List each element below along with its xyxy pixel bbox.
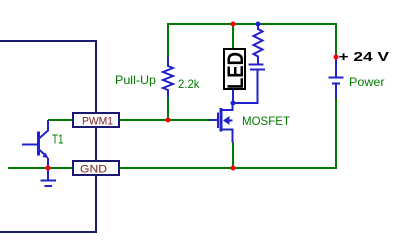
net label box GND xyxy=(73,161,119,175)
wire MOSFET source to GND rail xyxy=(232,142,234,168)
svg-text:GND: GND xyxy=(80,164,107,176)
resistor R2 snubber xyxy=(254,24,263,64)
capacitor C1 xyxy=(233,65,265,104)
junction dot GND / MOSFET source xyxy=(231,166,236,171)
wire pull-up bottom lead to PWM net xyxy=(167,97,169,120)
junction dot +24V node xyxy=(334,55,339,60)
net label box PWM1 xyxy=(73,113,119,127)
junction dot GND / emitter xyxy=(46,166,51,171)
junction dot top rail / snubber xyxy=(256,22,261,27)
junction dot top rail / LED xyxy=(231,22,236,27)
wire +24V top rail xyxy=(168,24,336,57)
svg-text:PWM1: PWM1 xyxy=(82,116,113,128)
wire LED anode drop xyxy=(232,24,234,48)
ground symbol xyxy=(41,168,57,186)
transistor T1 xyxy=(22,120,49,168)
svg-text:T1: T1 xyxy=(52,132,64,147)
battery B1 24V Power xyxy=(329,58,344,98)
wire PWM net: PWM1 box to MOSFET gate xyxy=(120,119,209,121)
MOSFET Q1 xyxy=(209,104,233,143)
svg-text:Power: Power xyxy=(349,75,385,89)
wire PWM net: collector to PWM1 box xyxy=(48,119,72,121)
resistor R1 pull-up 2.2k xyxy=(163,57,173,97)
svg-text:2.2k: 2.2k xyxy=(178,77,200,91)
junction dot PWM net / pull-up xyxy=(166,118,171,123)
junction dot drain / LED / snubber xyxy=(231,101,236,106)
svg-text:LED: LED xyxy=(223,52,248,89)
wire GND net: left stub to emitter junction to GND box xyxy=(8,167,72,169)
cable bus outline wire xyxy=(0,41,96,232)
wire GND net: GND box to battery minus xyxy=(120,98,336,168)
wire LED cathode lead xyxy=(232,90,234,103)
LED D1 box xyxy=(224,49,245,89)
svg-text:MOSFET: MOSFET xyxy=(242,114,291,128)
svg-text:Pull-Up: Pull-Up xyxy=(115,73,156,87)
svg-text:+ 24 V: + 24 V xyxy=(339,49,390,64)
